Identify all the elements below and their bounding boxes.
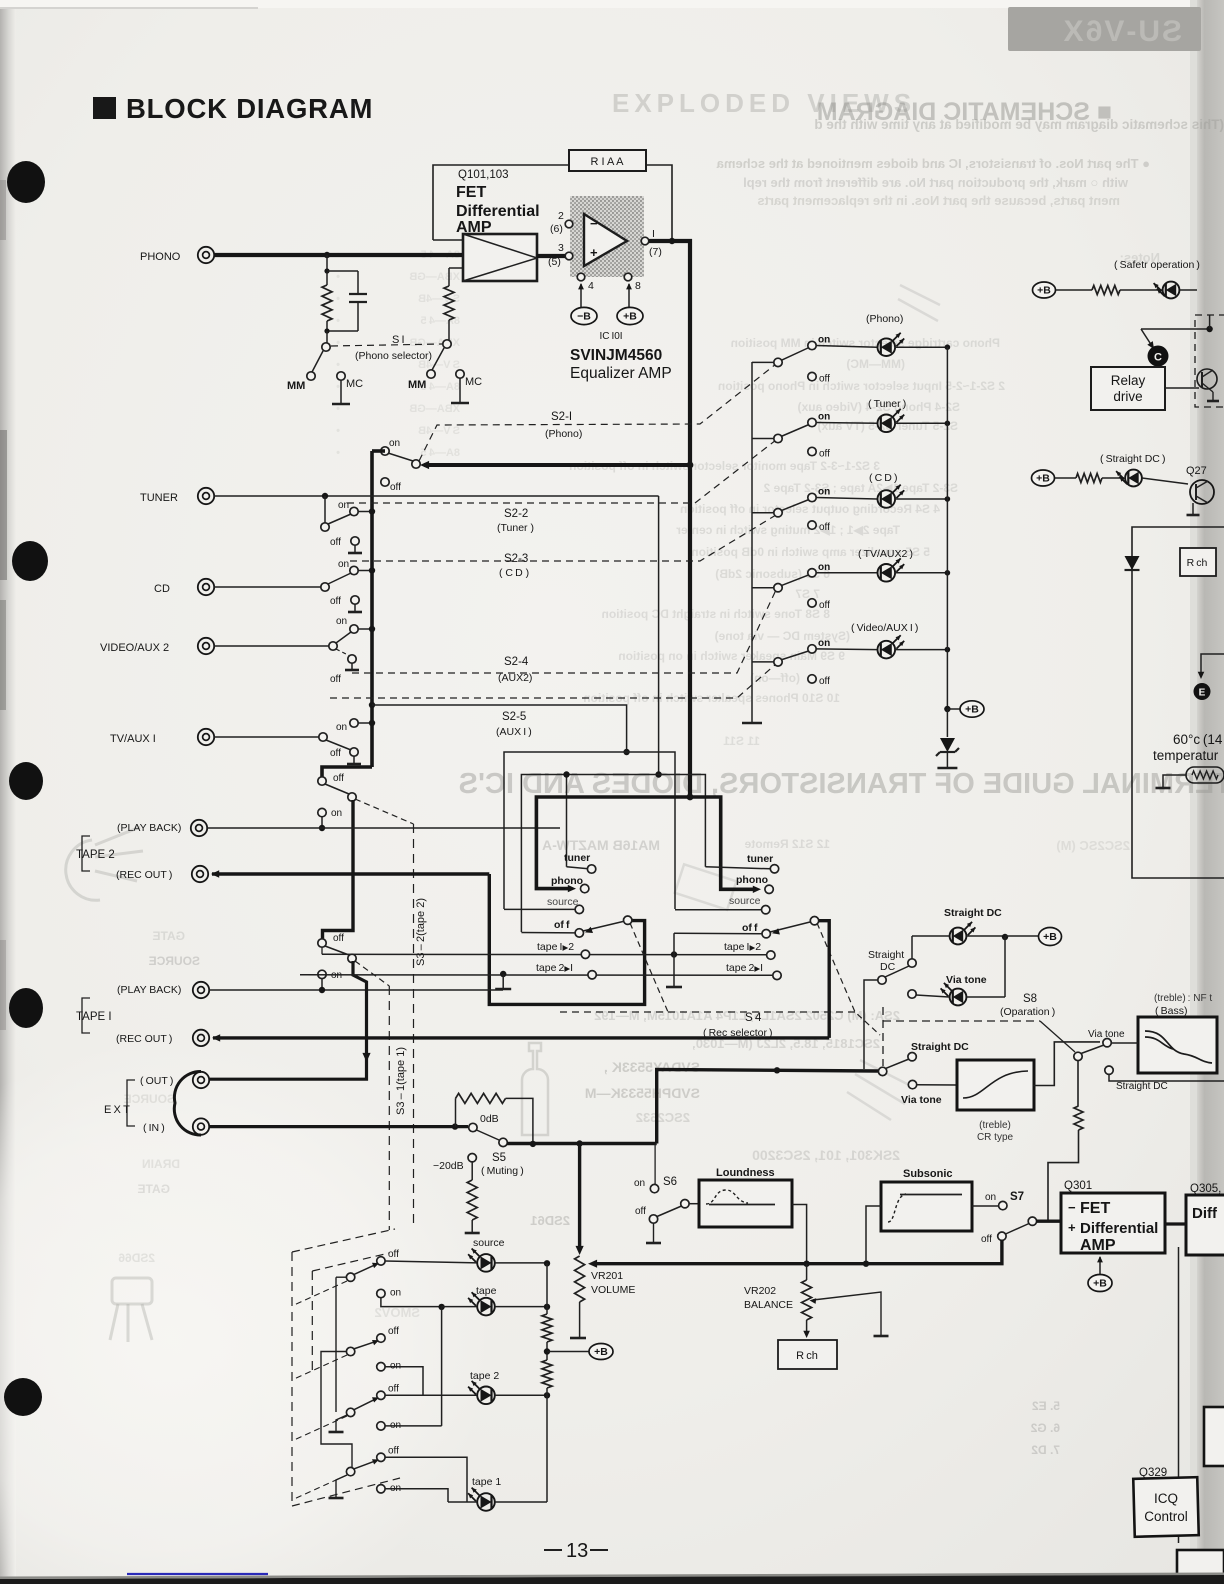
contact monitor 1 on bbox=[377, 1289, 385, 1297]
node C black circle bbox=[1148, 346, 1169, 367]
wire off4 step bbox=[385, 1457, 467, 1502]
switch S2-1 bbox=[412, 460, 420, 468]
LED cd indicator bbox=[878, 490, 896, 508]
svg-text:(off—on): (off—on) bbox=[750, 671, 800, 685]
svg-text:MM: MM bbox=[408, 379, 426, 391]
svg-text:Q27: Q27 bbox=[1186, 465, 1207, 477]
svg-text:2SC2632: 2SC2632 bbox=[636, 1110, 690, 1125]
wire rec off left link bbox=[521, 932, 575, 934]
svg-text:•: • bbox=[336, 315, 340, 327]
svg-text:( C D ): ( C D ) bbox=[869, 472, 897, 484]
dashed S8 vertical link bbox=[882, 1007, 884, 1066]
diode rch loop bbox=[1125, 556, 1140, 570]
svg-text:tuner: tuner bbox=[564, 852, 590, 864]
box Q305 diff bbox=[1186, 1195, 1224, 1255]
LED safety operation bbox=[1163, 282, 1180, 299]
contact tape2 monitor on bbox=[318, 808, 326, 816]
svg-text:11 S11: 11 S11 bbox=[723, 734, 760, 748]
contact S2-3 off with ground bbox=[351, 596, 359, 604]
wire tape2to1 row bbox=[300, 974, 772, 977]
svg-text:3: 3 bbox=[558, 242, 564, 254]
svg-text:with ○ mark, the production pa: with ○ mark, the production part No. are… bbox=[743, 175, 1129, 190]
wire S7 to Q301 thick bbox=[1036, 1219, 1061, 1222]
svg-text:S2-3: S2-3 bbox=[504, 553, 528, 565]
box Loudness bbox=[689, 1203, 699, 1205]
svg-text:VIDEO/AUX 2: VIDEO/AUX 2 bbox=[100, 642, 169, 654]
svg-text:+B: +B bbox=[1036, 473, 1050, 485]
svg-text:on: on bbox=[331, 808, 342, 819]
svg-text:•: • bbox=[336, 381, 340, 393]
svg-text:SVDPH5533K—M: SVDPH5533K—M bbox=[585, 1085, 700, 1101]
wire thermal to ground bbox=[1163, 775, 1186, 787]
contact tape1to2 left bbox=[581, 950, 589, 958]
svg-text:7. D2: 7. D2 bbox=[1031, 1443, 1060, 1457]
svg-text:S7: S7 bbox=[1010, 1191, 1024, 1203]
node treble feed bbox=[774, 1067, 780, 1073]
label box Q101 outline bbox=[433, 165, 569, 240]
contact S5 common bbox=[469, 1123, 477, 1131]
svg-text:S3 – 1(tape 1): S3 – 1(tape 1) bbox=[395, 1047, 407, 1115]
svg-text:(Tuner ): (Tuner ) bbox=[497, 522, 534, 534]
ground monitor 3 bbox=[336, 1415, 347, 1431]
svg-text:MM: MM bbox=[287, 380, 305, 392]
LED tape 1 bbox=[385, 1489, 448, 1502]
ground monitor 4 bbox=[336, 1475, 347, 1497]
wire EXT loop arc (thick) bbox=[174, 1071, 201, 1135]
dashed S3-1 from pivot bbox=[355, 961, 389, 986]
wire LED tvaux2 to supply rail bbox=[895, 572, 947, 574]
svg-text:off: off bbox=[330, 748, 341, 759]
pin 2 IC101 bbox=[565, 220, 573, 228]
svg-text:Diff: Diff bbox=[1192, 1205, 1218, 1222]
contact bass straight bbox=[1105, 1066, 1113, 1074]
svg-text:•: • bbox=[336, 425, 340, 437]
svg-text:MC: MC bbox=[465, 376, 482, 388]
contact LED videoaux1 off bbox=[808, 675, 816, 683]
svg-text:Q301: Q301 bbox=[1064, 1180, 1092, 1192]
svg-text:SOURCE: SOURCE bbox=[149, 954, 200, 968]
dashed box relay transistor bbox=[1195, 315, 1224, 407]
svg-text:(7): (7) bbox=[649, 246, 662, 258]
resistor straight dc bbox=[1055, 477, 1076, 479]
svg-text:I: I bbox=[652, 228, 655, 240]
supply +B oval Q301 bbox=[1099, 1257, 1101, 1274]
ground VR201 bbox=[570, 1337, 586, 1340]
switch tape2 monitor pivot bbox=[325, 784, 349, 794]
switch rec selector left pivot bbox=[583, 922, 623, 932]
contact LED phono on bbox=[808, 341, 816, 349]
resistor chain lower bbox=[542, 1360, 552, 1388]
svg-text:XBA—GB: XBA—GB bbox=[409, 337, 460, 349]
svg-text:Differential: Differential bbox=[456, 203, 540, 220]
svg-text:MC: MC bbox=[346, 378, 363, 390]
wire S2-4 dashed lever bbox=[336, 649, 350, 656]
contact LED videoaux1 on bbox=[808, 645, 816, 653]
svg-text:temperatur: temperatur bbox=[1153, 748, 1219, 763]
ghost capacitor drawing middle bbox=[522, 1043, 548, 1135]
contact S6 off bbox=[649, 1215, 657, 1223]
svg-text:13: 13 bbox=[566, 1540, 588, 1562]
contact S5 -20dB bbox=[468, 1154, 476, 1162]
switch S2-2 bbox=[324, 496, 326, 523]
contact LED cd on bbox=[808, 493, 816, 501]
svg-text:S 4: S 4 bbox=[745, 1012, 762, 1024]
contact rec phono left bbox=[581, 884, 589, 892]
supply -B oval bbox=[580, 284, 582, 308]
pin 8 IC101 bbox=[624, 273, 632, 281]
svg-text:Straight DC: Straight DC bbox=[1116, 1081, 1168, 1092]
contact S8 via tone bbox=[908, 990, 916, 998]
contact tape1to2 right bbox=[767, 951, 775, 959]
svg-text:8A—4 5: 8A—4 5 bbox=[421, 315, 461, 327]
box Q301 FET differential amp bbox=[1061, 1193, 1165, 1253]
wire tvaux2 on to LED bbox=[816, 572, 877, 574]
svg-text:S5: S5 bbox=[492, 1152, 506, 1164]
svg-text:GATE: GATE bbox=[138, 1182, 170, 1196]
svg-text:R ch: R ch bbox=[796, 1350, 818, 1362]
svg-text:tape 1: tape 1 bbox=[472, 1476, 501, 1488]
svg-text:VOLUME: VOLUME bbox=[591, 1284, 635, 1296]
contact LED tuner off bbox=[808, 447, 816, 455]
wire IC101 output (thick) bbox=[649, 239, 692, 243]
LED tuner indicator bbox=[878, 415, 896, 433]
wire right column down bbox=[1178, 1247, 1180, 1543]
supply +B oval IC101 bbox=[628, 284, 630, 308]
wire volume feed thick bbox=[578, 1144, 581, 1251]
svg-text:( Safetr operation ): ( Safetr operation ) bbox=[1114, 259, 1200, 271]
svg-text:( TV/AUX2 ): ( TV/AUX2 ) bbox=[858, 548, 913, 560]
node tuner branch bbox=[322, 493, 328, 499]
switch S2-3 bbox=[321, 583, 329, 591]
svg-text:off: off bbox=[330, 596, 341, 607]
svg-text:S2-4: S2-4 bbox=[504, 656, 529, 668]
supply +B oval S8 bbox=[1039, 928, 1062, 946]
svg-text:ment parts, because the part N: ment parts, because the part Nos. in the… bbox=[757, 193, 1120, 208]
resistor chain upper bbox=[542, 1314, 552, 1342]
heading BLOCK DIAGRAM bbox=[93, 97, 116, 119]
svg-text:S2-2: S2-2 bbox=[504, 508, 528, 520]
svg-text:tape I▶2: tape I▶2 bbox=[724, 941, 761, 953]
svg-text:on: on bbox=[818, 487, 830, 498]
contact rec phono right bbox=[765, 885, 773, 893]
svg-text:BALANCE: BALANCE bbox=[744, 1299, 793, 1311]
svg-text:(treble): (treble) bbox=[979, 1120, 1011, 1131]
capacitor phono load bbox=[327, 270, 358, 272]
wire monitor bus vertical bbox=[441, 1307, 443, 1426]
wire treble box to bass via-tone bbox=[1033, 1042, 1100, 1086]
svg-text:6. G2: 6. G2 bbox=[1030, 1421, 1060, 1435]
switch LED tvaux2 pivot bbox=[752, 587, 774, 589]
svg-text:off: off bbox=[388, 1326, 399, 1337]
svg-text:on: on bbox=[818, 335, 830, 346]
wire LED chain rail bbox=[546, 1263, 548, 1314]
svg-text:off: off bbox=[819, 374, 830, 385]
wire subsonic output to S7 bbox=[972, 1205, 998, 1207]
ground LED rail bbox=[742, 722, 762, 725]
node subsonic junction bbox=[863, 1261, 869, 1267]
box right edge partial bbox=[1204, 1407, 1224, 1466]
supply +B oval chain bbox=[589, 1344, 613, 1360]
switch LED videoaux1 pivot bbox=[752, 661, 774, 663]
contact monitor 2 on bbox=[377, 1363, 385, 1371]
svg-text:off: off bbox=[330, 674, 341, 685]
wire E bracket bbox=[1201, 654, 1224, 675]
svg-text:on: on bbox=[818, 562, 830, 573]
svg-text:S V—4B: S V—4B bbox=[418, 293, 460, 305]
svg-text:2SD61: 2SD61 bbox=[530, 1213, 570, 1228]
contact tape1 monitor off bbox=[318, 939, 326, 947]
node source tap on bus bbox=[369, 702, 375, 708]
svg-text:(5): (5) bbox=[548, 256, 561, 268]
svg-text:E: E bbox=[1199, 688, 1206, 699]
svg-text:C: C bbox=[1154, 352, 1162, 364]
svg-text:tape: tape bbox=[476, 1285, 497, 1297]
svg-text:on: on bbox=[336, 722, 347, 733]
wire tape to rail bbox=[495, 1306, 548, 1308]
contact LED tvaux2 on bbox=[808, 569, 816, 577]
LED videoaux1 indicator bbox=[878, 641, 896, 659]
left edge dark smudges bbox=[0, 430, 7, 580]
LED tape bbox=[381, 1298, 442, 1307]
switch LED cd pivot bbox=[752, 512, 774, 514]
svg-text:5. E2: 5. E2 bbox=[1032, 1399, 1060, 1413]
svg-text:tape 2▶I: tape 2▶I bbox=[726, 962, 763, 974]
node volume tap bbox=[576, 1140, 582, 1146]
box Subsonic bbox=[881, 1182, 972, 1231]
wire volume bus thick arrow bbox=[592, 1262, 866, 1265]
wire rec off right link bbox=[674, 932, 762, 935]
wire LED videoaux1 to supply rail bbox=[895, 649, 947, 651]
svg-text:S6: S6 bbox=[663, 1176, 677, 1188]
wire phono on to LED bbox=[816, 346, 877, 348]
svg-text:(6): (6) bbox=[550, 223, 563, 235]
svg-text:Phono cartridge selector switc: Phono cartridge selector switch in MM po… bbox=[731, 336, 1000, 350]
dashed S3-2 from pivot bbox=[355, 799, 414, 824]
box Relay drive bbox=[1091, 367, 1165, 410]
contact treble straight bbox=[908, 1053, 916, 1061]
wire cd on to LED bbox=[816, 498, 877, 500]
svg-text:tuner: tuner bbox=[747, 853, 773, 865]
page number 13 bbox=[544, 1549, 562, 1551]
wire tape2 monitor chain (thick) bbox=[323, 800, 354, 939]
contact monitor 3 off bbox=[377, 1391, 385, 1399]
node feedback tap bbox=[669, 238, 675, 244]
svg-text:R ch: R ch bbox=[1187, 557, 1208, 569]
wire LED supply rail vertical bbox=[946, 347, 948, 709]
svg-text:E X T: E X T bbox=[104, 1104, 130, 1116]
svg-text:S3-2 Tape 1▶2A tape ; S3-2 T: S3-2 Tape 1▶2A tape ; S3-2 Tape 2 bbox=[763, 481, 958, 495]
wire S1 link dashed bbox=[331, 344, 442, 346]
wire on2 step bbox=[385, 1367, 423, 1396]
switch LED tuner pivot bbox=[752, 438, 774, 440]
switch tape1 monitor pivot bbox=[325, 946, 349, 955]
wire tape1 monitor to EXT OUT (thick) bbox=[209, 961, 367, 1079]
contact rec off left bbox=[575, 929, 583, 937]
svg-text:XBA—GB: XBA—GB bbox=[409, 271, 460, 283]
svg-text:−: − bbox=[1068, 1200, 1076, 1215]
svg-text:SOURCE: SOURCE bbox=[124, 1092, 175, 1106]
contact MC right with ground bbox=[456, 370, 464, 378]
svg-text:2 S2-1~2-5 Input selector s: 2 S2-1~2-5 Input selector switch in Phon… bbox=[718, 379, 1005, 393]
wire tuner line bbox=[214, 495, 659, 497]
node 0dB join bbox=[530, 1141, 536, 1147]
ghost transistor drawings left bbox=[66, 827, 152, 1342]
svg-text:(PLAY BACK): (PLAY BACK) bbox=[117, 822, 181, 834]
svg-text:12 S12 Remote: 12 S12 Remote bbox=[744, 837, 830, 851]
svg-text:Subsonic: Subsonic bbox=[903, 1168, 953, 1180]
wire phono to FET amp (thick) bbox=[214, 253, 463, 257]
ground rec right stack bbox=[666, 986, 682, 989]
svg-text:SVDAY5533K ,: SVDAY5533K , bbox=[604, 1059, 700, 1075]
svg-text:(AUX I ): (AUX I ) bbox=[496, 726, 532, 738]
svg-text:tape 2▶I: tape 2▶I bbox=[536, 962, 573, 974]
wire tape2 rec line (thick, arrow into jack) bbox=[212, 872, 489, 875]
svg-text:S V—4B: S V—4B bbox=[418, 425, 460, 437]
switch S2-4 bbox=[329, 642, 337, 650]
node tape1to2 ground tap bbox=[671, 951, 677, 957]
wire videoaux1 on to LED bbox=[816, 648, 877, 651]
wire thick source split left bbox=[536, 797, 690, 889]
svg-text:Q305,: Q305, bbox=[1190, 1183, 1221, 1195]
svg-text:phono: phono bbox=[551, 875, 583, 887]
svg-text:Via tone: Via tone bbox=[901, 1094, 942, 1106]
contact MC left with ground bbox=[337, 372, 345, 380]
contact monitor 1 off bbox=[377, 1257, 385, 1265]
svg-text:S2-5: S2-5 bbox=[502, 711, 526, 723]
svg-text:+B: +B bbox=[594, 1346, 608, 1358]
wire source tap to rec frame bbox=[372, 705, 627, 752]
LED straight dc S8 bbox=[950, 928, 967, 945]
svg-text:of f: of f bbox=[554, 919, 570, 931]
ghost SU-V6X banner bbox=[1008, 7, 1201, 51]
svg-text:( C D ): ( C D ) bbox=[499, 567, 529, 579]
box R ch bbox=[778, 1340, 837, 1369]
punch hole 5 bbox=[4, 1378, 42, 1416]
svg-text:S8: S8 bbox=[1023, 993, 1037, 1005]
resistor phono load bbox=[326, 255, 328, 272]
node loudness-balance junction bbox=[803, 1261, 809, 1267]
svg-text:source: source bbox=[473, 1237, 505, 1249]
svg-text:S2-I: S2-I bbox=[551, 411, 572, 423]
svg-text:of f: of f bbox=[742, 922, 758, 934]
resistor safety bbox=[1056, 289, 1092, 291]
switch S1 left pole bbox=[326, 331, 328, 343]
potentiometer VR202 balance bbox=[806, 1264, 808, 1280]
dashed S3-2 vertical bbox=[413, 824, 415, 1228]
box bottom right partial bbox=[1177, 1550, 1224, 1580]
svg-text:Straight: Straight bbox=[868, 949, 904, 961]
wire rec source frame bbox=[504, 752, 675, 909]
svg-text:IC I0I: IC I0I bbox=[599, 331, 622, 342]
svg-text:(Oparation ): (Oparation ) bbox=[1000, 1006, 1055, 1018]
svg-text:+: + bbox=[590, 245, 598, 260]
svg-text:on: on bbox=[338, 559, 349, 570]
wire S2-1 feed (thick, arrow left) bbox=[424, 463, 690, 467]
svg-text:TUNER: TUNER bbox=[140, 492, 178, 504]
LED via tone S8 bbox=[950, 989, 967, 1006]
wire main bus down (thick) bbox=[688, 239, 692, 797]
supply +B oval straight dc bbox=[1032, 470, 1055, 486]
svg-text:VR201: VR201 bbox=[591, 1270, 623, 1282]
svg-text:PHONO: PHONO bbox=[140, 251, 181, 263]
switch treble pivot bbox=[878, 1067, 886, 1075]
wire selector bus start (thick) bbox=[372, 449, 385, 453]
contact rec off right bbox=[762, 930, 770, 938]
ghost package drawings middle bbox=[675, 285, 940, 1120]
wire resistor to Q301 jog bbox=[1048, 1130, 1079, 1220]
svg-text:−B: −B bbox=[577, 311, 591, 323]
svg-text:Via tone: Via tone bbox=[946, 974, 987, 986]
svg-text:S3 – 2(tape 2): S3 – 2(tape 2) bbox=[415, 898, 427, 966]
contact rec tuner right bbox=[705, 867, 770, 869]
wire S2-5 dashed link bbox=[330, 664, 776, 698]
wire video aux2 line bbox=[214, 645, 330, 647]
svg-text:off: off bbox=[388, 1249, 399, 1260]
contact monitor 2 off bbox=[377, 1334, 385, 1342]
svg-text:R I A A: R I A A bbox=[590, 156, 624, 168]
arrow into node C bbox=[1141, 329, 1152, 346]
contact tape2to1 left bbox=[588, 971, 596, 979]
svg-text:(PLAY BACK): (PLAY BACK) bbox=[117, 984, 181, 996]
wire tape1 playback line bbox=[209, 989, 503, 991]
svg-text:8 S8 Tone switch in straigh: 8 S8 Tone switch in straight DC position bbox=[602, 607, 830, 621]
wire S2-4 dashed link bbox=[352, 590, 776, 673]
LED tvaux2 indicator bbox=[878, 564, 896, 582]
box ICQ Control bbox=[1133, 1477, 1198, 1537]
svg-text:Differential: Differential bbox=[1080, 1220, 1158, 1237]
punch hole 3 bbox=[9, 762, 43, 800]
svg-text:XBA—GB: XBA—GB bbox=[409, 403, 460, 415]
svg-text:Tape 2▶1 ; 1▶2 muting switch: Tape 2▶1 ; 1▶2 muting switch in center bbox=[676, 523, 900, 537]
wire thick source split right bbox=[690, 797, 755, 889]
svg-text:on: on bbox=[818, 412, 830, 423]
ground S6 bbox=[653, 1223, 655, 1242]
transistor Q27 bbox=[1190, 480, 1214, 504]
contact S2-5 on upper bbox=[350, 719, 358, 727]
wire bus corner to tape2 off (thick) bbox=[322, 767, 372, 777]
svg-text:−: − bbox=[590, 216, 598, 231]
pin 3 IC101 bbox=[565, 252, 573, 260]
switch S8 pivot bbox=[878, 976, 886, 984]
jack VIDEO/AUX2 bbox=[198, 638, 214, 654]
svg-text:(AUX2): (AUX2) bbox=[498, 672, 532, 684]
svg-text:tape I▶2: tape I▶2 bbox=[537, 941, 574, 953]
wire S7 off thick bbox=[866, 1240, 1002, 1263]
contact monitor 3 on bbox=[377, 1422, 385, 1430]
svg-text:on: on bbox=[634, 1178, 645, 1189]
svg-text:on: on bbox=[985, 1192, 996, 1203]
svg-text:Loundness: Loundness bbox=[716, 1167, 775, 1179]
ground zener bbox=[937, 767, 957, 770]
svg-text:CR type: CR type bbox=[977, 1132, 1014, 1143]
svg-text:SVINJM4560: SVINJM4560 bbox=[570, 347, 662, 364]
svg-text:•: • bbox=[336, 271, 340, 283]
switch monitor 1 pivot bbox=[346, 1273, 354, 1281]
svg-text:off: off bbox=[819, 449, 830, 460]
punch hole 2 bbox=[12, 541, 48, 581]
svg-text:AMP: AMP bbox=[1080, 1237, 1116, 1254]
svg-text:off: off bbox=[388, 1445, 399, 1456]
svg-text:off: off bbox=[390, 482, 401, 493]
svg-text:TV/AUX I: TV/AUX I bbox=[110, 733, 156, 745]
box Rch bbox=[1180, 548, 1216, 576]
node +B chain bbox=[544, 1348, 550, 1354]
svg-text:source: source bbox=[729, 895, 761, 907]
box RIAA bbox=[569, 150, 646, 171]
svg-text:Via tone: Via tone bbox=[1088, 1029, 1125, 1040]
wire S5 to tone thick bbox=[657, 1069, 878, 1143]
svg-text:FET: FET bbox=[456, 184, 486, 201]
